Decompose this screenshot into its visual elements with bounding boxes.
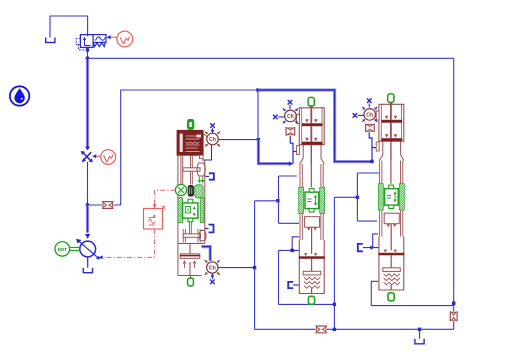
U1 quantity sensor top <box>207 133 219 145</box>
U1 lvdt hatch left <box>178 198 183 223</box>
arrow V1-to-valve <box>109 36 117 38</box>
signal wire sensor-to-func <box>155 190 176 206</box>
wire col3 pilot-stub <box>372 147 378 149</box>
wire supply thick col2 <box>258 140 289 164</box>
tank T2 <box>83 268 92 273</box>
valve block U2 chamber box <box>305 217 320 228</box>
wire pump-riser thick <box>86 59 89 147</box>
U1 bottom signal X <box>210 280 215 285</box>
U1 nozzle bulge <box>197 163 205 176</box>
U3 pilot orifice <box>366 124 375 133</box>
svg-text:Ch: Ch <box>209 266 216 272</box>
relief valve PRV1 <box>80 35 93 48</box>
junction supply-branch <box>86 203 89 206</box>
U3 pilot left signal X <box>353 113 358 118</box>
wire branch-up <box>121 90 258 205</box>
junction mid-top <box>256 88 259 91</box>
svg-text:Ch: Ch <box>366 113 373 119</box>
valve block U2 top sensor <box>308 97 314 106</box>
U1 lvdt hatch right <box>200 198 204 223</box>
valve block U2 piston band 3 <box>299 256 325 259</box>
svg-text:NOT: NOT <box>58 247 68 252</box>
wire col2 pilot-down <box>290 136 293 164</box>
wire return-left top <box>255 200 278 202</box>
U1 pilot link <box>203 134 207 137</box>
valve block U3 piston band 2 <box>382 138 403 141</box>
wire return-mid vertical <box>333 197 335 329</box>
wire U1-to-Ch thick <box>202 247 211 261</box>
U1 spring hatch <box>195 185 203 198</box>
U2 pilot top signal X <box>288 100 293 105</box>
wire pump-tank <box>87 257 89 268</box>
valve block U3 body upper <box>379 104 404 141</box>
valve block U3 chamber box <box>384 213 399 224</box>
valve block U3 piston lower <box>383 268 401 272</box>
wire return-mid top <box>334 196 357 198</box>
U1 quantity sensor bottom <box>207 262 218 273</box>
U1 spool bar <box>183 234 200 237</box>
junction right-low <box>452 302 455 305</box>
tank T6 bracket <box>358 244 363 251</box>
junction supply-end-col3 <box>370 160 373 163</box>
valve block U2 legs upper <box>300 164 323 187</box>
U1 torque sensor <box>175 184 186 195</box>
valve block U3 spring <box>384 274 400 285</box>
junction ch1b-net <box>253 266 256 269</box>
U1 armature bar <box>183 168 200 171</box>
variable orifice X1 <box>83 152 92 161</box>
junction col2-bottom <box>333 303 336 306</box>
wire relief-down <box>87 47 89 59</box>
valve block U3 mass box <box>385 189 399 206</box>
pump swash arrow <box>79 241 99 258</box>
valve block U2 piston band 1 <box>302 123 323 126</box>
U1 top sensor <box>188 120 194 130</box>
wire right vertical <box>453 58 455 306</box>
tank T4 bracket <box>288 282 293 288</box>
arrow V2-to-X1 <box>95 155 101 157</box>
wire ch1-to-net <box>219 139 259 141</box>
svg-text:Ch: Ch <box>287 114 294 120</box>
arrow col3-tank <box>370 245 374 249</box>
wire col3-tank <box>363 234 379 248</box>
valve block U3 body mid <box>379 141 403 160</box>
junction main top <box>86 57 89 60</box>
wire tank-bottom stub <box>419 329 421 339</box>
valve block U3 top sensor <box>388 94 394 103</box>
fluid properties icon <box>10 86 29 105</box>
wire col2 pilot-stub <box>293 151 297 153</box>
wire right-to-orifice <box>453 306 455 329</box>
svg-text:Ch: Ch <box>209 137 216 143</box>
valve block U2 arrows mid <box>307 228 310 231</box>
valve block U3 arrows lower <box>384 250 387 253</box>
arrow into orifice <box>85 147 90 151</box>
valve block U3 mass hatch right <box>399 184 404 210</box>
valve block U2 piston band 2 <box>302 142 323 145</box>
valve block U3 port tab 1 <box>376 111 379 120</box>
wire supply thick top <box>258 90 371 162</box>
valve block U2 mass hatch right <box>320 187 325 213</box>
signal wire func-to-pump <box>102 229 155 257</box>
pump inlet arrow <box>85 234 90 239</box>
U3 pilot quantity sensor <box>364 109 376 121</box>
wire ch1b-line <box>218 267 254 269</box>
valve block U3 legs lower <box>380 210 403 237</box>
junction col3-bypass <box>356 196 359 199</box>
U1 spool plates <box>183 229 200 243</box>
wire col3-bottom <box>371 281 453 305</box>
U2 pilot left signal X <box>273 115 278 120</box>
U1 damper capsule <box>188 185 194 197</box>
wire return-left vertical <box>254 201 256 330</box>
orifice R4 vertical <box>450 311 457 321</box>
signal source V2 <box>101 150 116 165</box>
function block F1 <box>144 209 163 230</box>
valve block U2 body upper <box>299 108 324 145</box>
orifice R3 <box>315 326 327 333</box>
valve block U2 arrows lower <box>304 253 307 256</box>
tank T5 <box>415 339 424 344</box>
junction col2-left-a <box>276 199 279 202</box>
junction bottom-mid <box>333 328 336 331</box>
U1 lower chamber <box>178 244 205 276</box>
valve block U3 arrows mid <box>387 224 390 227</box>
valve block U3 legs upper <box>380 161 403 184</box>
tank T1 <box>46 38 55 43</box>
valve block U2 spring <box>304 277 320 288</box>
U1 green arrows <box>198 180 201 183</box>
valve block U3 bottom sensor <box>388 293 394 301</box>
wire branch-horizontal <box>88 204 121 206</box>
valve block U2 port tab 2 <box>297 146 300 155</box>
U1 body sides <box>178 155 205 275</box>
wire tank-to-relief <box>50 16 88 38</box>
signal source V1 <box>117 31 133 47</box>
valve block U2 mass hatch left <box>299 187 304 213</box>
U1 bottom sensor pill <box>188 278 194 286</box>
junction tank-bottom <box>418 328 421 331</box>
junction ch1-line <box>257 138 260 141</box>
pilot dashed line <box>76 39 80 45</box>
valve block U3 port tab 2 <box>376 142 379 151</box>
valve block U3 mass hatch left <box>378 184 383 210</box>
valve block U3 arrows upper <box>385 116 389 119</box>
wire col3 bypass <box>357 173 379 221</box>
wire col2-tank stub <box>293 284 298 286</box>
valve block U2 piston lower <box>303 271 321 275</box>
wire col2-bottom <box>279 303 335 305</box>
valve block U2 body lower <box>299 240 324 294</box>
valve block U2 bottom sensor <box>308 296 314 304</box>
U1 top signal X <box>210 123 215 128</box>
junction col2-port-b <box>291 249 294 252</box>
wire below X1 <box>87 162 89 205</box>
U1 spool bulge <box>199 231 206 241</box>
orifice R1 <box>102 202 114 209</box>
tank T3b <box>209 225 214 233</box>
wire col2-left top <box>279 175 297 177</box>
pump P1 <box>80 241 96 257</box>
U1 feedback port <box>200 155 204 159</box>
valve block U3 piston band 3 <box>378 253 404 256</box>
wire bottom horizontal <box>255 328 454 330</box>
wire x258 down <box>257 90 259 140</box>
wire col2 port-b <box>279 237 300 251</box>
U3 pilot top signal X <box>367 98 372 103</box>
U2 pilot orifice <box>286 127 295 136</box>
valve block U2 spool rod <box>310 108 312 142</box>
wire col2 port-a <box>279 222 300 224</box>
U1 solenoid block <box>177 130 203 155</box>
U2 pilot quantity sensor <box>285 110 297 122</box>
valve block U2 body mid <box>300 145 324 164</box>
valve block U2 arrows upper <box>305 119 309 122</box>
wire col3 pilot-down <box>369 132 372 161</box>
valve block U3 body lower <box>379 237 404 291</box>
valve block U3 piston band 1 <box>382 120 403 123</box>
tank T3a <box>209 173 214 179</box>
U1 sensor-to-port wire <box>202 145 211 160</box>
junction below relief <box>86 48 89 51</box>
wire col2-left vertical B <box>278 250 280 304</box>
wire main top horizontal <box>88 57 454 59</box>
valve block U2 legs lower <box>300 214 323 241</box>
gauge NOT <box>55 242 70 257</box>
valve block U2 mass box <box>305 192 319 209</box>
valve block U3 spool rod <box>390 104 392 138</box>
link NOT-pump <box>70 247 80 250</box>
U1 lvdt box <box>183 203 198 218</box>
valve block U2 port tab 1 <box>297 115 300 124</box>
wire pump-suction thick <box>86 205 89 233</box>
U1 flapper rods <box>181 155 192 184</box>
wire col2-left vertical A <box>278 176 280 223</box>
arrow into col2 port <box>289 161 293 166</box>
